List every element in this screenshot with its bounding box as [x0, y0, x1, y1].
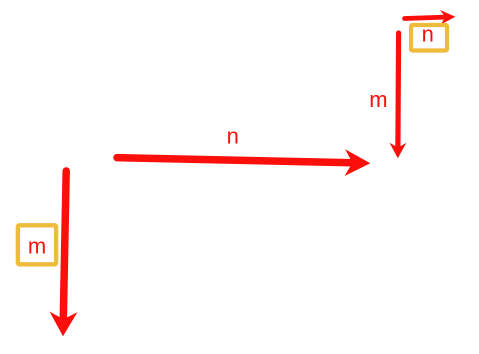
svg-text:n: n [227, 123, 239, 148]
label box m (left yellow box) [18, 225, 56, 264]
arrow n (top-right small horizontal) [405, 10, 456, 25]
svg-text:m: m [28, 233, 46, 258]
arrow n (middle large horizontal) [117, 149, 370, 176]
label box n (top-right yellow box) [411, 25, 447, 51]
svg-text:m: m [369, 87, 387, 112]
arrow m (top-right vertical) [390, 33, 407, 158]
arrow m (left large vertical) [50, 171, 78, 336]
svg-text:n: n [422, 22, 434, 47]
